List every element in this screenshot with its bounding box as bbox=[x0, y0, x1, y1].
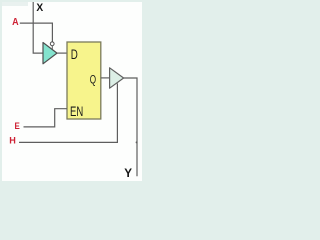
wire from X down to buffer input bbox=[33, 2, 43, 53]
svg-text:EN: EN bbox=[70, 103, 83, 119]
faint toolbar remnant top-left bbox=[2, 2, 28, 6]
enable bubble bbox=[50, 42, 54, 46]
svg-text:Y: Y bbox=[124, 166, 132, 180]
wire H to buffer enable bbox=[19, 83, 117, 142]
svg-text:D: D bbox=[71, 46, 78, 62]
tri-state buffer U1 bbox=[43, 43, 57, 64]
wire E to EN bbox=[24, 109, 68, 127]
wire Q to output buffer bbox=[101, 77, 110, 79]
wire buffer output to Y bbox=[124, 78, 137, 176]
D latch U2 body bbox=[67, 42, 101, 119]
wire from A to enable bubble bbox=[20, 23, 53, 42]
svg-text:A: A bbox=[12, 17, 19, 28]
tri-state buffer U3 bbox=[110, 68, 124, 88]
schematic canvas bbox=[2, 2, 142, 181]
svg-text:E: E bbox=[15, 121, 20, 132]
svg-text:H: H bbox=[9, 135, 16, 146]
page background bbox=[0, 0, 182, 187]
bubble stub bbox=[51, 46, 53, 50]
svg-text:X: X bbox=[36, 2, 43, 14]
svg-text:Q: Q bbox=[90, 74, 96, 87]
wire buffer output to D bbox=[57, 52, 67, 54]
junction tick on Y wire bbox=[136, 141, 138, 143]
